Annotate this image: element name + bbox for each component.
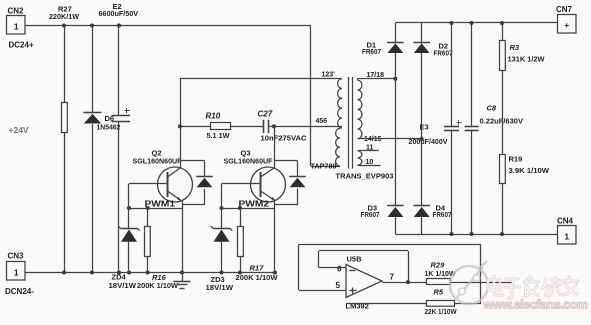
svg-text:CN4: CN4 — [557, 217, 574, 226]
wire Q3 base drop — [221, 184, 223, 229]
wire Q2 collector — [168, 168, 181, 177]
node +24V rail junction dots — [62, 24, 66, 28]
svg-text:DCN24-: DCN24- — [5, 287, 34, 296]
resistor R3 — [502, 23, 504, 40]
capacitor E2 — [118, 26, 120, 116]
svg-text:E3: E3 — [420, 123, 429, 132]
diode D3 FR607 — [387, 205, 404, 207]
diode D1 FR607 — [395, 23, 397, 42]
svg-text:0.22uF/630V: 0.22uF/630V — [480, 117, 524, 126]
svg-text:200uF/400V: 200uF/400V — [409, 137, 448, 146]
svg-text:6: 6 — [337, 265, 342, 274]
wire Q3 collector — [261, 168, 275, 177]
svg-text:TAP789: TAP789 — [311, 162, 337, 171]
svg-text:U5B: U5B — [347, 255, 363, 264]
wire Q3 gate protection rail — [222, 208, 276, 210]
svg-text:10: 10 — [366, 159, 374, 166]
svg-text:18V/1W: 18V/1W — [109, 281, 137, 290]
resistor R5 — [346, 303, 427, 305]
wire Q2 gate protection rail — [129, 208, 182, 210]
transformer aux winding 11-10 — [358, 151, 362, 165]
wire noninverting input network — [299, 244, 481, 246]
capacitor C27 — [263, 120, 265, 133]
svg-text:CN2: CN2 — [8, 7, 25, 16]
svg-text:www.elecfans.com: www.elecfans.com — [483, 298, 588, 312]
transformer primary lower winding to TAP789 — [336, 129, 340, 167]
svg-text:22K 1/10W: 22K 1/10W — [425, 307, 458, 316]
decorative watermark (not labelled further) — [450, 261, 488, 304]
svg-text:+24V: +24V — [9, 125, 29, 135]
svg-text:PWM2: PWM2 — [239, 200, 270, 209]
svg-text:123': 123' — [322, 72, 336, 79]
svg-text:CN7: CN7 — [556, 5, 573, 14]
resistor R19 — [500, 155, 506, 184]
svg-text:5.1 1W: 5.1 1W — [207, 131, 231, 140]
svg-text:R17: R17 — [250, 264, 265, 273]
svg-text:10nF275VAC: 10nF275VAC — [261, 134, 308, 143]
svg-text:FR607: FR607 — [361, 212, 380, 219]
svg-text:FR607: FR607 — [433, 212, 452, 219]
svg-text:456: 456 — [316, 118, 328, 125]
svg-text:14/15: 14/15 — [364, 136, 382, 143]
svg-text:200K 1/10W: 200K 1/10W — [137, 281, 179, 290]
svg-text:C8: C8 — [487, 104, 497, 113]
resistor R17 — [240, 208, 242, 226]
svg-text:220K/1W: 220K/1W — [49, 12, 80, 21]
wire CN2 to +24V rail — [26, 25, 311, 27]
svg-text:3.9K 1/10W: 3.9K 1/10W — [509, 166, 550, 175]
svg-text:FR607: FR607 — [434, 50, 453, 57]
wire -HV bottom rail — [395, 234, 557, 236]
diode D6 — [92, 26, 94, 113]
svg-text:1: 1 — [564, 232, 569, 242]
wire +HV top rail — [395, 22, 557, 24]
node snubber line — [178, 124, 182, 128]
svg-text:R3: R3 — [510, 43, 520, 52]
wire pin 10 stub — [358, 165, 381, 167]
diode across Q3 C-E — [274, 160, 298, 162]
svg-text:1N5462: 1N5462 — [97, 123, 121, 132]
svg-text:R19: R19 — [509, 155, 523, 164]
svg-text:SGL160N60UF: SGL160N60UF — [224, 157, 273, 166]
transformer TRANS_EVP903 primary winding 123-456 — [338, 79, 342, 129]
svg-text:200K 1/10W: 200K 1/10W — [236, 273, 279, 282]
svg-text:6600uF/50V: 6600uF/50V — [99, 9, 139, 18]
svg-text:131K 1/2W: 131K 1/2W — [508, 55, 546, 64]
wire snubber to primary 456 — [269, 126, 343, 128]
capacitor C8 — [471, 23, 473, 126]
svg-text:SGL160N60UF: SGL160N60UF — [133, 157, 182, 166]
wire Q2 base drop — [128, 184, 130, 229]
svg-text:TRANS_EVP903: TRANS_EVP903 — [336, 172, 394, 181]
capacitor E3 — [451, 23, 453, 126]
wire Q2 base (PWM1) — [129, 183, 168, 185]
wire collectors top link to primary 123 — [180, 78, 342, 80]
diode D4 FR607 — [413, 205, 430, 207]
svg-text:CN3: CN3 — [8, 252, 25, 261]
svg-text:DC24+: DC24+ — [9, 41, 34, 50]
svg-text:5: 5 — [336, 281, 341, 290]
svg-text:D2: D2 — [439, 42, 449, 51]
wire +24V rail drop to transformer center tap — [310, 26, 312, 167]
wire pin 11 stub — [358, 150, 380, 152]
wire feedback output to pin 6 — [319, 250, 408, 252]
ground — [182, 273, 184, 282]
svg-text:18V/1W: 18V/1W — [206, 283, 234, 292]
diode D2 FR607 — [421, 23, 423, 42]
svg-text:R10: R10 — [206, 112, 221, 121]
wire Q3 base (PWM2) — [222, 183, 261, 185]
svg-text:11: 11 — [366, 145, 374, 152]
svg-text:LM392: LM392 — [346, 302, 369, 311]
svg-text:1: 1 — [14, 268, 19, 278]
svg-text:+: + — [564, 20, 569, 30]
svg-text:C27: C27 — [258, 110, 273, 119]
resistor R10 — [211, 123, 231, 130]
svg-text:R5: R5 — [434, 288, 444, 297]
resistor R29 — [427, 279, 451, 285]
resistor R16 — [147, 208, 149, 226]
transformer secondary winding 17/18-14/15 — [358, 80, 362, 139]
svg-text:1: 1 — [14, 22, 19, 32]
zener ZD3 — [213, 228, 230, 230]
wire DCN24- bottom rail — [26, 272, 276, 274]
svg-text:FR607: FR607 — [362, 49, 381, 56]
svg-text:7: 7 — [390, 273, 395, 282]
wire Q2 emitter — [168, 191, 182, 201]
wire Q3 emitter — [261, 191, 276, 201]
wire secondary 17/18 to rectifier — [357, 79, 359, 81]
transformer core — [348, 77, 350, 169]
zener ZD4 — [121, 228, 138, 230]
resistor R27 — [64, 26, 66, 104]
wire secondary 14/15 to rectifier — [357, 138, 359, 140]
diode across Q2 C-E — [180, 160, 205, 162]
op-amp U5B LM392 — [346, 265, 382, 298]
